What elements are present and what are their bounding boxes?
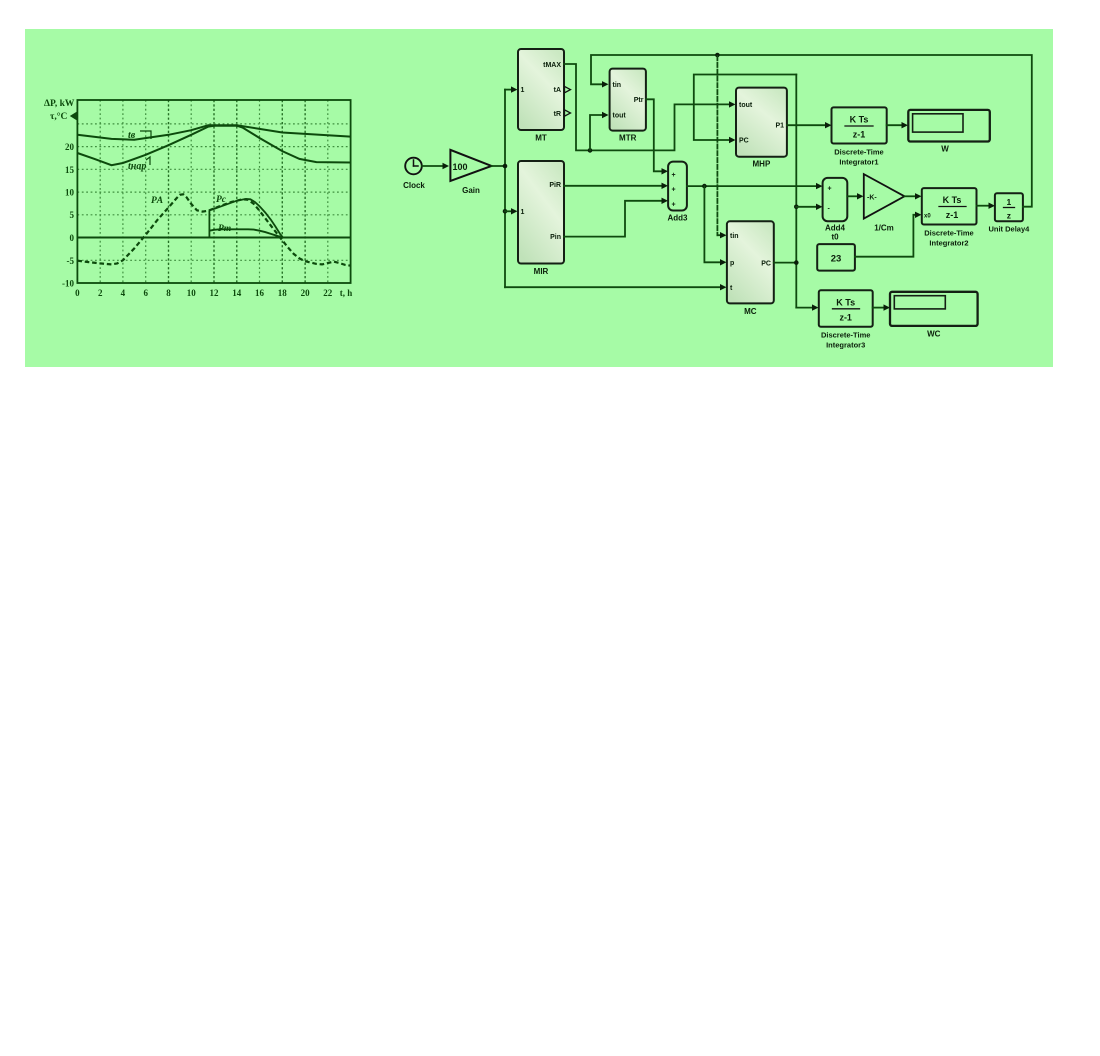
display block W bbox=[908, 110, 990, 154]
svg-text:Integrator2: Integrator2 bbox=[929, 239, 968, 248]
svg-text:1: 1 bbox=[521, 87, 525, 94]
wire Add4 to 1/Cm bbox=[847, 193, 863, 199]
wire Add3 branch to MC p bbox=[704, 186, 726, 265]
svg-text:x0: x0 bbox=[924, 214, 931, 220]
svg-text:Add3: Add3 bbox=[668, 214, 689, 223]
svg-text:6: 6 bbox=[143, 288, 148, 298]
svg-text:+: + bbox=[672, 172, 676, 179]
wire PC branch to Add4 input2 bbox=[796, 204, 822, 210]
svg-text:-: - bbox=[828, 205, 831, 212]
curve Pc step vertical bbox=[208, 210, 210, 237]
block Discrete-Time Integrator3 bbox=[819, 290, 873, 349]
svg-text:W: W bbox=[941, 145, 949, 154]
svg-text:Clock: Clock bbox=[403, 181, 425, 190]
wire 1/Cm to Integrator2 bbox=[905, 193, 922, 199]
wire MHP P1 to Integrator1 bbox=[787, 122, 832, 128]
svg-text:Integrator1: Integrator1 bbox=[839, 158, 878, 167]
svg-text:tA: tA bbox=[554, 87, 561, 94]
chart border frame bbox=[77, 100, 350, 283]
curve tnar outdoor temperature bbox=[77, 126, 350, 166]
svg-text:2: 2 bbox=[98, 288, 103, 298]
svg-text:tin: tin bbox=[730, 233, 739, 240]
wire MC PC net bbox=[774, 75, 799, 308]
wire feedback Unit Delay4 to MTR tin bbox=[591, 53, 1032, 207]
svg-text:PC: PC bbox=[761, 260, 771, 267]
svg-text:Pin: Pin bbox=[550, 234, 561, 241]
svg-text:p: p bbox=[730, 260, 734, 267]
chart zero axis line bbox=[77, 237, 350, 239]
block Discrete-Time Integrator2 bbox=[922, 188, 977, 247]
svg-text:Integrator3: Integrator3 bbox=[826, 341, 865, 350]
wire PC branch to Integrator3 bbox=[796, 304, 818, 310]
svg-text:tin: tin bbox=[613, 82, 622, 89]
svg-text:WC: WC bbox=[927, 330, 941, 339]
MT unconnected port tA bbox=[565, 86, 571, 92]
curve Pt bbox=[209, 229, 281, 237]
svg-text:0: 0 bbox=[70, 233, 75, 243]
svg-text:PiR: PiR bbox=[549, 182, 561, 189]
sum block Add4 bbox=[823, 178, 848, 241]
svg-text:K Ts: K Ts bbox=[836, 297, 855, 307]
svg-text:+: + bbox=[672, 201, 676, 208]
svg-text:z-1: z-1 bbox=[853, 130, 866, 140]
wire trunk to MIR input bbox=[505, 208, 518, 214]
svg-text:20: 20 bbox=[65, 142, 75, 152]
svg-text:23: 23 bbox=[831, 254, 842, 265]
wire MT tMAX to MHP tout bbox=[564, 64, 736, 153]
wire clock to gain bbox=[422, 163, 449, 169]
chart grid horizontals bbox=[77, 124, 350, 260]
svg-text:Pс: Pс bbox=[216, 195, 227, 205]
wire feedback branch to MC tin (dashed vertical) bbox=[717, 56, 726, 238]
clock source block bbox=[403, 158, 425, 190]
svg-text:1/Cm: 1/Cm bbox=[874, 223, 894, 232]
constant block 23 bbox=[817, 244, 855, 271]
svg-text:Add4: Add4 bbox=[825, 223, 846, 232]
chart grid darker verticals bbox=[169, 100, 306, 283]
x tick labels bbox=[75, 288, 352, 298]
subsystem block MIR bbox=[518, 161, 564, 276]
wire Integrator2 to Unit Delay4 bbox=[977, 203, 996, 209]
display block WC bbox=[890, 292, 978, 339]
svg-text:MC: MC bbox=[744, 307, 757, 316]
svg-text:MTR: MTR bbox=[619, 134, 637, 143]
svg-text:t0: t0 bbox=[831, 232, 839, 241]
svg-text:K Ts: K Ts bbox=[850, 115, 869, 125]
svg-text:z-1: z-1 bbox=[839, 312, 852, 322]
svg-text:tMAX: tMAX bbox=[543, 62, 561, 69]
svg-text:MT: MT bbox=[535, 134, 547, 143]
block Discrete-Time Integrator1 bbox=[832, 107, 887, 166]
y axis arrow bbox=[70, 111, 78, 121]
wire MIR Pin to Add3 input3 bbox=[564, 198, 668, 237]
wire gain output trunk bbox=[492, 90, 508, 288]
svg-text:Gain: Gain bbox=[462, 186, 480, 195]
svg-text:P1: P1 bbox=[775, 122, 784, 129]
subsystem block MTR bbox=[610, 69, 646, 143]
svg-text:100: 100 bbox=[453, 162, 468, 172]
svg-text:tв: tв bbox=[128, 130, 136, 141]
svg-text:tout: tout bbox=[613, 113, 627, 120]
svg-text:0: 0 bbox=[75, 288, 80, 298]
svg-text:z: z bbox=[1007, 210, 1011, 220]
gain block Gain 100 bbox=[450, 150, 491, 195]
svg-text:14: 14 bbox=[232, 288, 242, 298]
svg-text:10: 10 bbox=[187, 288, 197, 298]
wire branch to MTR tout bbox=[590, 112, 609, 151]
svg-text:20: 20 bbox=[301, 288, 311, 298]
subsystem block MHP bbox=[736, 88, 787, 169]
svg-text:Discrete-Time: Discrete-Time bbox=[821, 331, 870, 340]
wire MIR PiR to Add3 input2 bbox=[564, 183, 668, 189]
svg-text:10: 10 bbox=[65, 188, 75, 198]
svg-text:4: 4 bbox=[121, 288, 126, 298]
svg-text:τ,°C: τ,°C bbox=[50, 111, 68, 122]
svg-text:5: 5 bbox=[70, 210, 75, 220]
wire Integrator3 to WC bbox=[873, 304, 890, 310]
subsystem block MT bbox=[518, 49, 564, 143]
sum block Add3 bbox=[668, 162, 689, 223]
svg-text:tнар: tнар bbox=[128, 161, 146, 172]
curve PA dashed bbox=[77, 194, 350, 265]
gain block 1/Cm bbox=[864, 174, 905, 232]
wire 23 to Integrator2 x0 bbox=[855, 212, 922, 257]
wire trunk to MC t input bbox=[505, 284, 727, 290]
svg-text:tout: tout bbox=[739, 102, 753, 109]
svg-text:+: + bbox=[672, 187, 676, 194]
svg-text:-K-: -K- bbox=[867, 194, 877, 201]
svg-text:MIR: MIR bbox=[534, 267, 549, 276]
svg-text:Unit Delay4: Unit Delay4 bbox=[988, 225, 1030, 234]
chart grid verticals bbox=[100, 100, 328, 283]
green background panel bbox=[25, 29, 1053, 367]
y tick labels bbox=[62, 142, 75, 289]
svg-text:z-1: z-1 bbox=[946, 210, 959, 220]
svg-text:t, h: t, h bbox=[340, 288, 353, 298]
svg-text:1: 1 bbox=[521, 209, 525, 216]
wire Integrator1 to W bbox=[887, 122, 908, 128]
wire MTR Ptr to Add3 input1 bbox=[646, 99, 668, 174]
svg-text:Pт: Pт bbox=[218, 224, 231, 234]
svg-text:K Ts: K Ts bbox=[943, 195, 962, 205]
svg-text:PC: PC bbox=[739, 138, 749, 145]
svg-text:1: 1 bbox=[1007, 197, 1012, 207]
svg-text:PА: PА bbox=[151, 196, 163, 206]
svg-text:15: 15 bbox=[65, 165, 75, 175]
block Unit Delay4 bbox=[988, 193, 1030, 233]
svg-text:18: 18 bbox=[278, 288, 288, 298]
subsystem block MC bbox=[727, 221, 774, 316]
wire PC to MHP PC bbox=[694, 75, 797, 144]
svg-text:16: 16 bbox=[255, 288, 265, 298]
wire Add3 output to Add4 input1 bbox=[687, 183, 823, 189]
svg-text:MHP: MHP bbox=[753, 160, 771, 169]
svg-text:-10: -10 bbox=[62, 279, 74, 289]
svg-text:Discrete-Time: Discrete-Time bbox=[924, 229, 973, 238]
wire trunk to MT input bbox=[505, 86, 518, 92]
svg-text:-5: -5 bbox=[67, 256, 75, 266]
MT unconnected port tR bbox=[565, 110, 571, 116]
svg-text:Ptr: Ptr bbox=[634, 97, 644, 104]
svg-text:12: 12 bbox=[210, 288, 220, 298]
svg-text:ΔP, kW: ΔP, kW bbox=[44, 99, 75, 109]
curve Pc bbox=[209, 199, 283, 238]
svg-text:+: + bbox=[828, 185, 832, 192]
svg-text:Discrete-Time: Discrete-Time bbox=[834, 148, 883, 157]
svg-text:tR: tR bbox=[554, 111, 561, 118]
svg-text:8: 8 bbox=[166, 288, 171, 298]
curve tv indoor temperature bbox=[77, 125, 350, 140]
svg-text:22: 22 bbox=[323, 288, 333, 298]
